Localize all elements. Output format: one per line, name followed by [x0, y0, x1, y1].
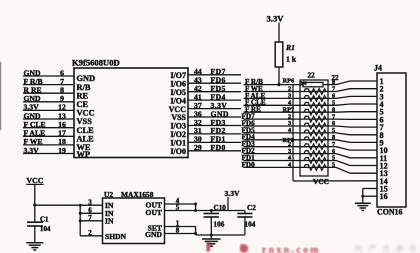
U1 right pin 43 (I/O6) wire — [188, 82, 241, 84]
wire bottom rail to caps — [196, 234, 245, 236]
svg-text:N6: N6 — [301, 82, 308, 87]
U1 left pin 12 (VCC) wire — [23, 109, 74, 111]
resistor element row 7 (22 ohm zigzag) — [304, 123, 326, 129]
U1 right pin 37 (VCC) wire — [188, 108, 241, 110]
wire net FD0 to J4 pin 13 — [244, 167, 378, 173]
svg-text:3: 3 — [88, 198, 92, 206]
U2 pin 5 wire (OUT) — [165, 210, 245, 212]
svg-text:FD0: FD0 — [211, 143, 226, 152]
wire net FD6 to J4 pin 7 — [244, 126, 378, 127]
wire net F CLE to J4 pin 4 — [244, 104, 378, 105]
wire IN tie bus — [79, 205, 81, 236]
wire net FD2 to J4 pin 11 — [244, 154, 378, 158]
junction C10 top — [210, 209, 213, 212]
wire R1 to R/B row — [278, 67, 280, 85]
U1 right pin 29 (I/O0) wire — [188, 150, 241, 152]
resistor element row 10 (22 ohm zigzag) — [304, 144, 326, 150]
svg-text:4: 4 — [288, 162, 291, 169]
U1 left pin 8 (RE) wire — [23, 92, 74, 94]
wire net F R/B to J4 pin 1 — [244, 81, 378, 85]
resistor element row 13 (22 ohm zigzag) — [304, 165, 326, 171]
U2 pin 3 wire — [80, 204, 102, 206]
svg-text:VCC: VCC — [27, 176, 44, 185]
svg-text:5: 5 — [332, 162, 335, 169]
svg-text:C10: C10 — [214, 204, 227, 212]
ground (J4) — [355, 202, 371, 204]
svg-text:3.3V: 3.3V — [24, 146, 40, 155]
svg-text:VSS: VSS — [77, 117, 93, 126]
svg-text:rnxn.com: rnxn.com — [262, 246, 321, 253]
junction R1 to R/B row — [277, 83, 280, 86]
wire 3.3V stub — [227, 197, 229, 211]
svg-text:29: 29 — [194, 143, 202, 152]
U1 left pin 6 (GND) wire — [23, 75, 74, 77]
red watermark remnants — [207, 242, 321, 253]
capacitor C2 104 — [244, 211, 246, 214]
U1 left pin 9 (CE) wire — [23, 101, 74, 103]
U1 left pin 7 (R/B) wire — [23, 84, 74, 86]
svg-text:3.3V: 3.3V — [225, 189, 240, 198]
svg-text:FD0: FD0 — [242, 161, 256, 169]
junction OUT pin 5 — [194, 209, 197, 212]
wire net F RE to J4 pin 5 — [244, 111, 378, 114]
U2 pin 8 wire (GND) — [165, 233, 196, 235]
svg-text:I/O0: I/O0 — [170, 147, 186, 156]
svg-text:1 k: 1 k — [286, 55, 297, 64]
wire SET/GND tie — [195, 227, 197, 236]
U1 right pin 32 (I/O3) wire — [188, 125, 241, 127]
svg-text:3.3V: 3.3V — [267, 14, 285, 24]
svg-text:GND: GND — [145, 230, 162, 239]
svg-text:WP: WP — [77, 150, 91, 159]
U1 left pin 17 (ALE) wire — [23, 135, 74, 137]
U1 left pin 16 (CLE) wire — [23, 127, 74, 129]
resistor element row 2 (22 ohm zigzag) — [304, 89, 326, 95]
U1 left pin 18 (WE) wire — [23, 144, 74, 146]
svg-text:GND: GND — [24, 111, 42, 120]
svg-text:22: 22 — [332, 74, 340, 82]
svg-text:SHDN: SHDN — [105, 232, 127, 241]
wire net FD4 to J4 pin 9 — [244, 140, 378, 143]
junction IN pin 7 — [79, 219, 82, 222]
resistor RP6 pin1 element (22 ohm, box style) — [303, 82, 323, 86]
svg-text:13: 13 — [58, 111, 66, 120]
U1 right pin 30 (I/O1) wire — [188, 141, 241, 143]
resistor element row 3 (22 ohm zigzag) — [304, 96, 326, 102]
junction IN pin 3 — [79, 204, 82, 207]
svg-text:19: 19 — [58, 146, 66, 155]
svg-text:16: 16 — [380, 192, 388, 201]
svg-text:RP6: RP6 — [283, 78, 296, 85]
wire OUT tie — [195, 204, 197, 211]
svg-text:CON16: CON16 — [377, 208, 402, 217]
U2 pin 1 wire (SET) — [165, 226, 196, 228]
U2 pin 7 wire — [80, 220, 102, 222]
resistor element row 4 (22 ohm zigzag) — [304, 103, 326, 109]
resistor element row 11 (22 ohm zigzag) — [304, 151, 326, 157]
junction IN pin 6 — [79, 212, 82, 215]
svg-text:106: 106 — [214, 221, 225, 229]
U1 left pin 13 (VSS) wire — [23, 118, 74, 120]
U1 right pin 31 (I/O2) wire — [188, 133, 241, 135]
U1 right pin 42 (I/O5) wire — [188, 91, 241, 93]
resistor element row 8 (22 ohm zigzag) — [304, 130, 326, 136]
wire pin15-16 tie — [362, 189, 364, 203]
junction GND pin 8 — [194, 232, 197, 235]
resistor element row 12 (22 ohm zigzag) — [304, 158, 326, 164]
wire net F ALE to J4 pin 3 — [244, 96, 378, 98]
svg-text:8: 8 — [176, 227, 180, 235]
svg-text:C1: C1 — [40, 216, 49, 224]
U1 left pin 19 (WP) wire — [23, 153, 74, 155]
junction at pin16 — [361, 195, 364, 198]
svg-text:2: 2 — [88, 229, 92, 237]
wire net FD7 to J4 pin 6 — [244, 118, 378, 120]
U1 right pin 41 (I/O4) wire — [188, 99, 241, 101]
resistor network RP6/RP7/RP8 pack outline — [300, 80, 328, 176]
common bus of resistor packs — [292, 85, 294, 181]
junction VCC node — [33, 203, 36, 206]
capacitor C1 104 — [34, 205, 36, 222]
svg-text:K9f5608U0D: K9f5608U0D — [72, 58, 120, 68]
svg-text:22: 22 — [308, 72, 316, 80]
junction OUT pin 4 — [194, 203, 197, 206]
svg-text:R1: R1 — [285, 43, 295, 52]
svg-text:104: 104 — [245, 221, 256, 229]
U1 right pin 44 (I/O7) wire — [188, 74, 241, 76]
svg-text:RP8: RP8 — [283, 137, 295, 144]
svg-text:4: 4 — [288, 127, 291, 134]
ground (C1) — [26, 242, 43, 244]
wire J4 pin 15 — [363, 188, 377, 190]
svg-text:J4: J4 — [374, 64, 382, 73]
wire net F WE to J4 pin 2 — [244, 89, 378, 92]
resistor element row 5 (22 ohm zigzag) — [304, 109, 326, 115]
svg-text:5: 5 — [176, 204, 180, 212]
wire J4 pin 16 — [363, 195, 377, 197]
svg-text:VCC: VCC — [313, 177, 329, 186]
wire VCC node to U2 — [35, 204, 80, 206]
svg-text:104: 104 — [40, 225, 51, 233]
ground (C10/U2) — [210, 235, 212, 239]
svg-text:7: 7 — [88, 214, 92, 222]
svg-text:RP7: RP7 — [283, 107, 296, 114]
wire net FD5 to J4 pin 8 — [244, 133, 378, 135]
svg-text:OUT: OUT — [146, 208, 162, 217]
svg-text:的严点递也: 的严点递也 — [355, 243, 420, 253]
wire net FD3 to J4 pin 10 — [244, 147, 378, 150]
U2 pin 2 wire (SHDN) — [80, 235, 102, 237]
U1 right pin 36 (VSS) wire — [188, 116, 241, 118]
svg-text:IN: IN — [105, 217, 114, 226]
wire net FD1 to J4 pin 12 — [244, 161, 378, 166]
U2 pin 4 wire (OUT) — [165, 203, 196, 205]
VCC rail to J4 pin 14 — [293, 180, 377, 182]
wire 3.3V to R1 — [278, 23, 280, 43]
resistor R1 1k — [275, 42, 283, 67]
svg-text:C2: C2 — [247, 204, 256, 212]
scan edge artifact — [0, 62, 1, 130]
junction C10 bottom — [210, 234, 213, 237]
svg-text:4: 4 — [288, 100, 291, 107]
wire VCC down — [34, 185, 36, 206]
resistor element row 9 (22 ohm zigzag) — [304, 137, 326, 143]
U2 pin 6 wire — [80, 212, 102, 214]
resistor element row 6 (22 ohm zigzag) — [304, 116, 326, 122]
